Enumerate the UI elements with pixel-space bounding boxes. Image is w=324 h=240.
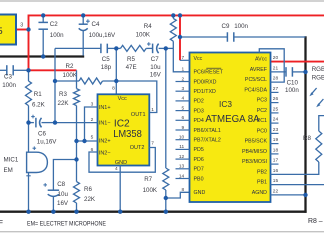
svg-text:47E: 47E: [126, 64, 137, 71]
svg-text:PC0: PC0: [257, 129, 267, 135]
svg-text:22: 22: [273, 188, 279, 194]
svg-text:C8: C8: [57, 181, 65, 188]
svg-text:14: 14: [179, 173, 185, 179]
svg-text:15: 15: [273, 178, 279, 184]
svg-text:PD5: PD5: [194, 147, 204, 153]
svg-text:PC5/SCL: PC5/SCL: [245, 77, 267, 83]
wire R3 bottom column: [76, 106, 78, 182]
wire IN1- node vertical: [54, 48, 56, 122]
resistor R4: [170, 18, 176, 41]
svg-text:18p: 18p: [101, 64, 112, 71]
capacitor C8 electrolytic: [48, 189, 59, 191]
svg-text:IN1+: IN1+: [99, 105, 111, 111]
svg-text:IN2+: IN2+: [99, 139, 111, 145]
svg-text:16V: 16V: [57, 200, 69, 207]
svg-text:R7: R7: [144, 176, 152, 183]
svg-text:PB3/MOSI: PB3/MOSI: [242, 159, 267, 165]
wire +5V branch left: [29, 69, 77, 71]
svg-text:22K: 22K: [58, 100, 70, 107]
microphone MIC1 body: [27, 152, 48, 172]
svg-text:1: 1: [151, 107, 154, 113]
wire R2 to OUT1 corner: [103, 81, 157, 113]
svg-text:AVREF: AVREF: [250, 67, 268, 73]
svg-text:100K: 100K: [143, 187, 158, 194]
op-amp IC2 body: [98, 94, 150, 165]
svg-text:PC6/RESET: PC6/RESET: [194, 70, 224, 76]
svg-text:100u,16V: 100u,16V: [89, 32, 116, 39]
svg-text:C3: C3: [4, 74, 12, 81]
svg-text:26: 26: [273, 96, 279, 102]
svg-text:R3: R3: [59, 91, 67, 98]
svg-text:24: 24: [273, 117, 279, 123]
svg-text:PD6: PD6: [194, 157, 204, 163]
svg-text:RGB: RGB: [312, 75, 324, 82]
pin 7 stub blue part: [180, 59, 190, 61]
svg-text:28: 28: [273, 76, 279, 82]
svg-text:R8 –: R8 –: [308, 218, 323, 225]
resistor R1: [28, 70, 30, 81]
LED arrows: [311, 88, 317, 94]
svg-text:3: 3: [20, 22, 23, 28]
svg-text:18: 18: [273, 147, 279, 153]
svg-text:PB6/XTAL1: PB6/XTAL1: [194, 128, 221, 134]
svg-text:Vcc: Vcc: [194, 56, 203, 62]
svg-text:25: 25: [273, 106, 279, 112]
svg-text:20: 20: [273, 55, 279, 61]
svg-text:17: 17: [273, 158, 279, 164]
wire +5V drop to IC3 Vcc: [179, 15, 181, 60]
svg-text:PD2: PD2: [194, 99, 204, 105]
wire node to IC3 pin1: [173, 48, 190, 71]
wire IN1- to R2: [55, 80, 79, 82]
junction dots: [26, 27, 30, 31]
wire GND pin4: [119, 166, 121, 212]
capacitor C6 electrolytic: [29, 122, 34, 124]
svg-text:R2: R2: [66, 63, 74, 70]
ground rail upper segment: [0, 55, 84, 57]
wire C8 top link: [53, 160, 76, 191]
capacitor C10: [285, 67, 287, 77]
wire +5V AVcc to LEDs: [271, 61, 324, 63]
wire IN2+ pin5: [77, 140, 98, 142]
svg-text:C9: C9: [222, 23, 230, 30]
svg-text:8: 8: [112, 85, 115, 91]
svg-text:R6: R6: [84, 186, 92, 193]
capacitor C9: [226, 32, 228, 42]
svg-text:21: 21: [273, 65, 279, 71]
svg-text:OUT2: OUT2: [130, 145, 145, 151]
resistor R6: [74, 182, 80, 203]
svg-text:1: 1: [182, 67, 185, 73]
svg-text:PC4/SDA: PC4/SDA: [244, 88, 267, 94]
svg-text:9: 9: [182, 125, 185, 131]
wire AGND pin22 to bus: [270, 194, 305, 196]
wire R7 bottom: [165, 190, 167, 212]
wire IN1- pin2: [55, 122, 98, 124]
svg-text:PC1: PC1: [257, 118, 267, 124]
wire R6 bottom: [76, 203, 78, 212]
svg-text:F: F: [0, 218, 3, 227]
svg-text:IC3: IC3: [219, 99, 232, 109]
wire AVcc branch: [180, 36, 227, 38]
resistor R3: [76, 70, 78, 88]
svg-text:10u: 10u: [58, 191, 69, 198]
svg-text:5: 5: [182, 105, 185, 111]
svg-text:11: 11: [179, 144, 184, 150]
svg-text:6.2K: 6.2K: [32, 101, 46, 108]
wire PC5 pin28 over-route: [259, 49, 284, 82]
wire mic bottom: [28, 173, 30, 212]
svg-text:5: 5: [0, 26, 3, 37]
svg-text:19: 19: [273, 137, 279, 143]
svg-text:EM: EM: [4, 167, 13, 174]
svg-text:MIC1: MIC1: [4, 156, 19, 163]
svg-text:PC2: PC2: [257, 108, 267, 114]
svg-text:ATMEGA 8A: ATMEGA 8A: [205, 114, 260, 125]
svg-text:12: 12: [179, 154, 185, 160]
svg-text:C7: C7: [151, 56, 159, 63]
svg-text:C10: C10: [287, 79, 299, 86]
svg-text:23: 23: [273, 127, 279, 133]
ground rail bottom: [0, 211, 307, 213]
wire IN2- feedback loop: [89, 148, 155, 173]
wire regulator pin3 stub: [16, 29, 29, 31]
svg-text:PB0: PB0: [194, 176, 204, 182]
svg-text:PD3: PD3: [194, 108, 204, 114]
wire AVREF pin21 to C10: [270, 71, 286, 73]
capacitor C5: [100, 44, 102, 54]
resistor R8: [316, 131, 322, 162]
frame bottom border: [0, 231, 324, 233]
svg-text:8: 8: [182, 187, 185, 193]
resistor R2: [79, 78, 103, 84]
ground bus right vertical: [304, 36, 306, 213]
svg-text:R1: R1: [34, 91, 42, 98]
wire mic top: [28, 123, 30, 153]
wire C5 top link: [55, 47, 101, 49]
svg-text:100n: 100n: [285, 87, 299, 94]
svg-text:16: 16: [273, 168, 279, 174]
svg-text:EM= ELECTRET MICROPHONE: EM= ELECTRET MICROPHONE: [27, 221, 106, 228]
svg-text:C2: C2: [50, 21, 58, 28]
RESET overline: [206, 67, 221, 69]
resistor R7: [163, 168, 169, 190]
wire LED cathode: [319, 116, 324, 131]
svg-text:AGND: AGND: [252, 190, 267, 196]
svg-text:PD7: PD7: [194, 167, 204, 173]
wire PB2 pin16 to R8: [270, 162, 319, 174]
svg-text:3: 3: [182, 86, 185, 92]
svg-text:10u: 10u: [150, 64, 161, 71]
svg-text:PD0/RXD: PD0/RXD: [194, 79, 217, 85]
svg-text:5: 5: [91, 134, 94, 140]
svg-text:PB7/XTAL2: PB7/XTAL2: [194, 138, 221, 144]
svg-text:100K: 100K: [63, 72, 78, 79]
svg-text:100n: 100n: [50, 32, 64, 39]
svg-text:7: 7: [151, 141, 154, 147]
svg-text:PD1/TXD: PD1/TXD: [194, 89, 217, 95]
svg-text:IN2−: IN2−: [99, 151, 111, 157]
wire C7 node down: [165, 48, 167, 168]
svg-text:RGB: RGB: [312, 66, 324, 73]
svg-text:GND: GND: [194, 190, 206, 196]
svg-text:LM358: LM358: [113, 129, 142, 140]
svg-text:C6: C6: [38, 131, 46, 138]
svg-text:C5: C5: [102, 56, 110, 63]
svg-text:Vcc: Vcc: [118, 96, 127, 102]
svg-text:13: 13: [179, 164, 185, 170]
wire R7 node to IC3 pin8: [166, 192, 190, 198]
capacitor C2: [42, 15, 44, 22]
svg-text:PD4: PD4: [194, 118, 204, 124]
svg-text:OUT1: OUT1: [131, 112, 146, 118]
svg-text:10: 10: [179, 135, 185, 141]
resistor R5: [121, 45, 147, 51]
svg-text:R4: R4: [144, 23, 152, 30]
svg-text:27: 27: [273, 86, 279, 92]
svg-text:22K: 22K: [84, 196, 96, 203]
wire C5 right riser: [115, 48, 117, 94]
svg-text:AVcc: AVcc: [255, 57, 267, 63]
svg-text:R8: R8: [303, 135, 311, 142]
capacitor C7 electrolytic: [146, 47, 152, 49]
svg-text:100n: 100n: [2, 82, 16, 89]
wire PB1 pin15 to edge: [270, 184, 324, 186]
microcontroller IC3 body: [190, 53, 271, 203]
capacitor C3: [0, 69, 7, 71]
capacitor C4 electrolytic: [82, 15, 84, 24]
regulator IC1 body: [0, 15, 16, 45]
svg-text:R5: R5: [127, 56, 135, 63]
svg-text:6: 6: [182, 115, 185, 121]
svg-text:100K: 100K: [136, 32, 151, 39]
svg-text:4: 4: [182, 96, 185, 102]
svg-text:PB1: PB1: [257, 180, 267, 186]
svg-text:PB4/MISO: PB4/MISO: [242, 149, 267, 155]
svg-text:PB2: PB2: [257, 170, 267, 176]
svg-text:IN1−: IN1−: [99, 120, 111, 126]
frame top border: [0, 0, 324, 2]
svg-text:2: 2: [182, 76, 185, 82]
svg-text:100n: 100n: [234, 23, 248, 30]
svg-text:PC3: PC3: [257, 98, 267, 104]
svg-text:16V: 16V: [150, 72, 162, 79]
svg-text:PB5/SCK: PB5/SCK: [245, 139, 268, 145]
wire +5V rail top: [29, 15, 324, 70]
svg-text:C4: C4: [92, 21, 100, 28]
wire IN1+ pin3: [85, 107, 98, 141]
svg-text:GND: GND: [115, 160, 127, 166]
svg-text:1u,16V: 1u,16V: [37, 139, 57, 146]
svg-text:4: 4: [115, 166, 118, 172]
